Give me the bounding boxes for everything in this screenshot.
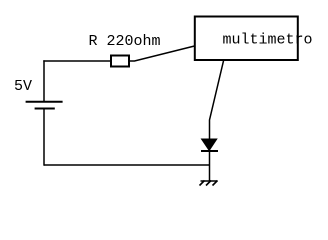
ground hatch 3 <box>213 181 218 186</box>
wire from battery positive up <box>43 60 45 101</box>
wire from multimeter bottom down to diode <box>210 60 224 140</box>
diode D1 anode triangle <box>202 139 217 151</box>
svg-text:multimetro: multimetro <box>223 32 313 49</box>
wire from battery negative down <box>43 109 45 166</box>
ground bar <box>201 180 218 182</box>
ground hatch 2 <box>206 181 211 186</box>
svg-text:5V: 5V <box>14 78 32 95</box>
resistor R1 body <box>111 56 129 67</box>
ground hatch 1 <box>200 181 205 186</box>
wire bottom bus from battery to diode node <box>44 164 210 166</box>
multimeter box U1 <box>195 17 298 61</box>
battery B1 short plate <box>35 108 55 110</box>
wire top horizontal to resistor <box>43 60 110 62</box>
svg-text:R 220ohm: R 220ohm <box>89 33 161 50</box>
wire from diode cathode down to ground <box>209 151 211 181</box>
battery B1 long plate <box>26 101 63 103</box>
wire from resistor right slanting up to multimeter <box>130 46 195 61</box>
diode D1 cathode bar <box>201 150 218 152</box>
